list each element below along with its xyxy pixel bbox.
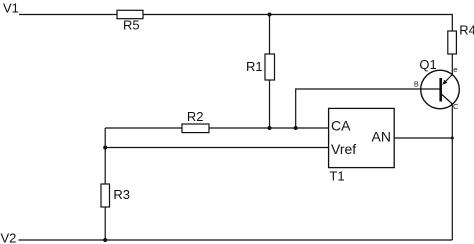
node junction Vref net / left branch [103,146,107,150]
node junction R1 branch / CA net [268,126,272,130]
transistor Q1 [421,70,460,109]
svg-text:Vref: Vref [331,141,356,157]
svg-text:AN: AN [372,128,391,144]
wire Q1 collector to bottom rail [451,104,453,240]
resistor R1 [265,54,275,80]
svg-text:R5: R5 [123,18,140,33]
node junction left branch / bottom rail [103,238,107,242]
wire V2 bottom rail [19,239,453,241]
resistor R3 [101,184,110,207]
wire left vertical branch through R3 [104,128,106,240]
svg-text:C: C [453,102,459,111]
svg-text:R1: R1 [246,59,263,74]
wire CA net horizontal [105,127,328,129]
node junction top rail / R1 branch [268,13,272,17]
svg-text:R3: R3 [113,187,130,202]
svg-text:T1: T1 [329,169,344,184]
svg-text:V2: V2 [1,231,17,244]
resistor R5 [117,10,143,18]
resistor R2 [182,124,209,133]
svg-text:B: B [414,82,419,89]
svg-text:CA: CA [331,118,351,134]
resistor R4 [448,31,457,54]
IC U1 box T1 [329,108,395,167]
wire AN output [394,137,452,139]
svg-text:e: e [453,65,457,74]
svg-text:V1: V1 [3,1,19,16]
node junction AN / collector [451,137,454,140]
wire Vref net horizontal [105,147,328,149]
node junction base branch / CA net [294,126,298,130]
svg-text:Q1: Q1 [419,57,436,72]
wire R1 branch vertical [269,15,271,129]
wire base branch from CA net to Q1 base [296,89,440,128]
svg-text:R2: R2 [187,109,204,124]
wire V1 top rail to R4 corner [19,15,452,32]
svg-text:R4: R4 [459,22,474,37]
wire R4 to Q1 emitter [451,54,453,75]
